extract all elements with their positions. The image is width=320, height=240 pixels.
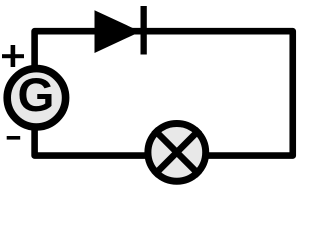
svg-text:G: G (18, 69, 55, 122)
lamp L1 ring (148, 123, 206, 181)
minus terminal (7, 136, 21, 140)
diode D1 cathode bar (141, 6, 147, 55)
plus terminal (2, 45, 24, 67)
lamp L1 cross (154, 129, 200, 175)
wire loop (35, 31, 293, 155)
diode D1 triangle (95, 10, 141, 53)
generator G1 body (7, 69, 65, 127)
lamp L1 body fill (148, 123, 206, 181)
